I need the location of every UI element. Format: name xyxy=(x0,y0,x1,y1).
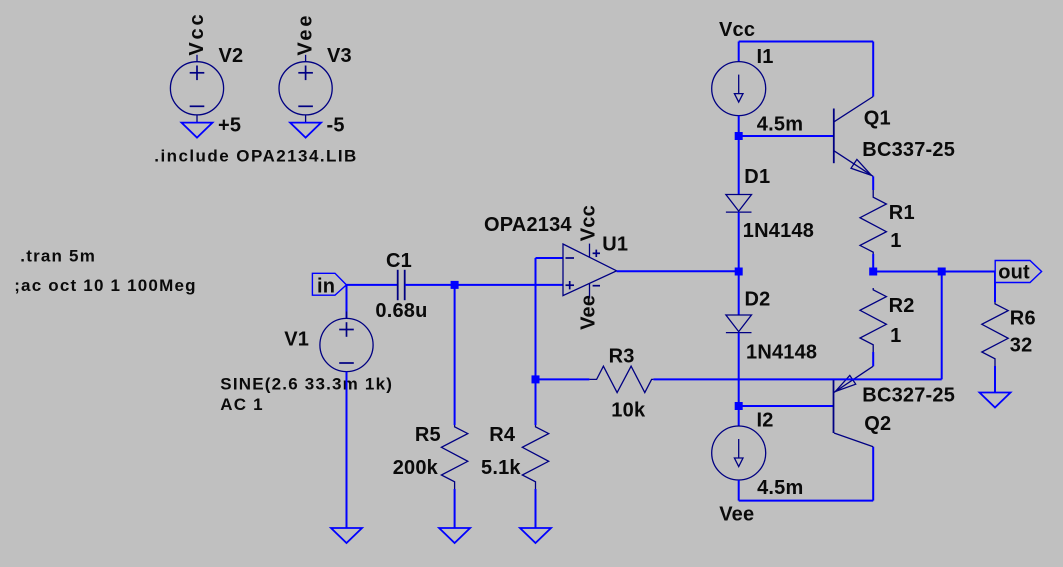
svg-text:in: in xyxy=(317,276,335,298)
wire opamp- input xyxy=(536,257,564,259)
wire R2 to Q2 emitter xyxy=(872,352,874,366)
ground (V3) xyxy=(290,123,321,138)
svg-text:5.1k: 5.1k xyxy=(481,457,521,479)
resistor R4 xyxy=(522,425,548,489)
node junction opamp-/R3/R4 xyxy=(532,375,540,383)
svg-text:Vcc: Vcc xyxy=(719,19,755,41)
svg-text:4.5m: 4.5m xyxy=(757,114,803,136)
svg-text:SINE(2.6 33.3m 1k): SINE(2.6 33.3m 1k) xyxy=(220,374,393,393)
wire Vee bottom run xyxy=(739,500,874,502)
svg-text:.include OPA2134.LIB: .include OPA2134.LIB xyxy=(154,146,357,165)
svg-text:V1: V1 xyxy=(284,329,309,351)
svg-text:Vcc: Vcc xyxy=(186,12,208,56)
svg-text:C1: C1 xyxy=(386,250,412,272)
svg-text:200k: 200k xyxy=(393,457,439,479)
capacitor C1 xyxy=(397,270,399,300)
svg-text:BC327-25: BC327-25 xyxy=(862,385,955,407)
wire V1 to ground xyxy=(346,372,348,528)
svg-text:R1: R1 xyxy=(889,202,915,224)
svg-text:10k: 10k xyxy=(611,399,646,421)
node junction out/feedback xyxy=(938,268,946,276)
node junction D2/I2/Q2-base xyxy=(735,402,743,410)
wire R6 to ground xyxy=(994,366,996,393)
svg-text:U1: U1 xyxy=(602,233,628,255)
wire in to V1 xyxy=(346,285,348,318)
svg-text:Vee: Vee xyxy=(577,295,599,330)
node junction C1/R5/opamp+ xyxy=(451,281,459,289)
resistor R1 xyxy=(860,190,886,254)
wire D1 to D2 xyxy=(738,212,740,315)
node junction I1/D1/Q1-base xyxy=(735,132,743,140)
port flag out xyxy=(995,261,1041,283)
wire Q1 base xyxy=(739,135,834,137)
voltage source V1 xyxy=(320,318,373,371)
svg-text:.tran 5m: .tran 5m xyxy=(20,247,96,266)
svg-text:+5: +5 xyxy=(218,114,241,136)
ground (R4) xyxy=(520,528,551,543)
svg-text:;ac oct 10 1 100Meg: ;ac oct 10 1 100Meg xyxy=(14,276,197,295)
wire I2 to Vee corner xyxy=(738,480,740,501)
wire in to C1 xyxy=(346,284,397,286)
ground (V2) xyxy=(182,123,213,138)
svg-text:OPA2134: OPA2134 xyxy=(484,214,572,236)
wire out port drop to R6 xyxy=(994,272,996,303)
current source I1 xyxy=(712,62,766,116)
wire Q1 collector drop xyxy=(872,42,874,97)
wire opamp output xyxy=(617,270,739,272)
wire R3 to feedback drop xyxy=(653,378,941,380)
svg-text:1: 1 xyxy=(890,325,901,347)
resistor R3 xyxy=(589,366,653,392)
ground (V1) xyxy=(331,528,362,543)
resistor R2 xyxy=(860,288,886,352)
svg-text:out: out xyxy=(998,261,1030,283)
wire out row right xyxy=(873,271,995,273)
svg-text:R4: R4 xyxy=(489,424,516,446)
transistor Q1 BC337-25 xyxy=(833,109,835,164)
svg-text:I2: I2 xyxy=(757,410,774,432)
svg-text:4.5m: 4.5m xyxy=(757,477,803,499)
svg-text:D2: D2 xyxy=(745,289,771,311)
wire Vcc rail to Q1 collector xyxy=(739,41,874,43)
wire Vcc stub to I1 xyxy=(738,42,740,62)
svg-text:V2: V2 xyxy=(219,45,244,67)
svg-text:Vee: Vee xyxy=(295,13,317,56)
wire feedback drop xyxy=(941,272,943,380)
wire R4 to ground xyxy=(535,489,537,528)
wire R1 to out row xyxy=(872,254,874,272)
wire Q1 emitter to R1 xyxy=(872,176,874,190)
wire D2 to I2 xyxy=(738,333,740,426)
svg-text:BC337-25: BC337-25 xyxy=(862,139,955,161)
voltage source V3 xyxy=(279,62,332,115)
svg-text:32: 32 xyxy=(1010,334,1033,356)
wire J2 to R4 xyxy=(535,379,537,425)
diode D2 1N4148 xyxy=(726,315,752,332)
wire I1 to D1 xyxy=(738,116,740,195)
svg-text:1: 1 xyxy=(890,230,901,252)
wire J1 to opamp + xyxy=(455,284,563,286)
wire J1 to R5 xyxy=(454,285,456,425)
transistor Q2 BC327-25 xyxy=(833,380,835,433)
svg-text:V3: V3 xyxy=(327,45,352,67)
node junction opamp-out/D1/D2 xyxy=(735,268,743,276)
svg-text:Q2: Q2 xyxy=(864,413,891,435)
wire R5 to ground xyxy=(454,489,456,528)
voltage source V2 xyxy=(170,62,223,115)
wire Q2 collector drop xyxy=(872,447,874,501)
op-amp U1 OPA2134 xyxy=(563,244,617,296)
current source I2 xyxy=(712,426,766,480)
svg-text:Vee: Vee xyxy=(719,504,754,526)
svg-text:D1: D1 xyxy=(744,166,770,188)
svg-text:R2: R2 xyxy=(889,295,915,317)
svg-text:R6: R6 xyxy=(1010,308,1036,330)
ground (R5) xyxy=(439,528,470,543)
diode D1 1N4148 xyxy=(726,195,752,212)
svg-text:-5: -5 xyxy=(327,114,345,136)
svg-text:I1: I1 xyxy=(757,46,774,68)
resistor R6 xyxy=(982,302,1008,366)
resistor R5 xyxy=(441,425,467,489)
node junction R1/R2/out xyxy=(869,268,877,276)
wire J2 to R3 xyxy=(536,378,590,380)
wire feedback vertical xyxy=(535,258,537,379)
svg-text:Q1: Q1 xyxy=(864,108,891,130)
svg-text:1N4148: 1N4148 xyxy=(743,220,814,242)
svg-text:R3: R3 xyxy=(609,345,635,367)
port flag in xyxy=(312,273,346,295)
ground (R6) xyxy=(980,393,1011,408)
svg-text:AC 1: AC 1 xyxy=(220,395,264,414)
svg-text:R5: R5 xyxy=(415,424,441,446)
wire C1 to J1 xyxy=(405,284,455,286)
svg-text:0.68u: 0.68u xyxy=(375,300,427,322)
wire Q2 base xyxy=(739,405,834,407)
svg-text:Vcc: Vcc xyxy=(578,205,600,241)
svg-text:1N4148: 1N4148 xyxy=(746,342,817,364)
